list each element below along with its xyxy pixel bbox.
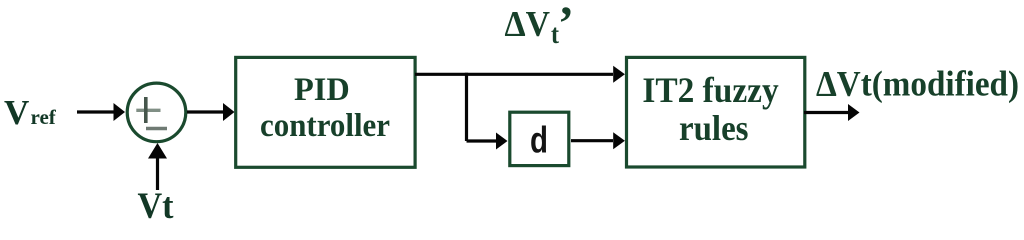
svg-text:V: V <box>4 93 29 132</box>
svg-text:ref: ref <box>31 105 57 129</box>
svg-text:ΔV: ΔV <box>505 4 551 44</box>
svg-text:rules: rules <box>679 108 749 148</box>
svg-text:’: ’ <box>558 0 574 50</box>
svg-text:d: d <box>530 120 548 161</box>
svg-text:IT2 fuzzy: IT2 fuzzy <box>642 70 778 110</box>
svg-text:controller: controller <box>260 108 390 144</box>
svg-text:PID: PID <box>294 72 350 108</box>
svg-text:Vt: Vt <box>138 186 175 222</box>
svg-text:ΔVt(modified): ΔVt(modified) <box>816 64 1019 104</box>
